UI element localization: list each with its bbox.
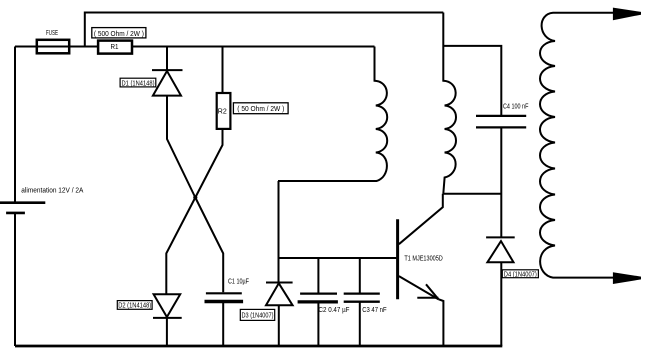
- svg-text:C2 0.47 µF: C2 0.47 µF: [319, 307, 350, 314]
- transistor T1 MJE13005D: [398, 194, 443, 299]
- capacitor C4: [476, 116, 526, 128]
- wire D1 branch: [166, 47, 168, 71]
- wire branch top right: [443, 46, 501, 116]
- wire base net horizontal: [279, 257, 397, 259]
- diode D4 1N4007: [486, 237, 515, 262]
- label box D3: [240, 309, 274, 320]
- wire main horizontal: [15, 46, 375, 48]
- wire junction to C1: [195, 198, 223, 293]
- wire top rail: [85, 13, 444, 47]
- resistor R2: [217, 93, 231, 129]
- svg-text:D2 (1N4148): D2 (1N4148): [118, 303, 151, 310]
- wire emitter to ground: [438, 299, 443, 346]
- wire left vertical to battery: [14, 47, 16, 203]
- capacitor C3: [344, 294, 380, 302]
- wire battery to bottom rail: [14, 213, 16, 346]
- wire C2 stub top: [317, 258, 319, 293]
- wire L2 bottom to collector node: [443, 193, 502, 195]
- svg-text:D4 (1N4007): D4 (1N4007): [504, 272, 537, 279]
- label box D2: [117, 301, 152, 310]
- svg-text:D3 (1N4007): D3 (1N4007): [242, 313, 274, 320]
- capacitor C1: [205, 293, 244, 301]
- wire D1 to junction: [167, 96, 195, 198]
- wire R2 branch: [222, 47, 224, 94]
- wire L1 bottom down to base net: [278, 181, 280, 283]
- battery BT1 alimentation: [0, 203, 45, 213]
- wire C2 to ground: [317, 302, 319, 346]
- diode D1 1N4148: [152, 70, 183, 96]
- wire C3 to ground: [359, 302, 361, 346]
- inductor L3 secondary winding: [540, 13, 613, 278]
- arrow output top: [613, 8, 641, 21]
- svg-text:C1 10µF: C1 10µF: [228, 279, 249, 286]
- inductor L1 primary winding: [278, 47, 387, 182]
- diode D3 1N4007: [266, 283, 293, 306]
- wire junction to D2: [166, 198, 195, 295]
- wire D2 to ground: [166, 318, 168, 346]
- label box D1: [120, 78, 156, 87]
- inductor L2 feedback winding: [443, 13, 456, 194]
- resistor R1: [98, 41, 132, 54]
- diode D2 1N4148: [153, 294, 182, 318]
- svg-text:alimentation 12V / 2A: alimentation 12V / 2A: [21, 187, 83, 194]
- svg-text:FUSE: FUSE: [46, 30, 58, 37]
- fuse FUSE: [37, 40, 69, 54]
- svg-text:T1 MJE13005D: T1 MJE13005D: [404, 255, 442, 262]
- label box R1 value: [92, 28, 146, 39]
- wire bottom ground rail: [15, 345, 502, 348]
- wire D3 to ground: [278, 305, 280, 346]
- svg-text:R1: R1: [111, 44, 119, 51]
- wire C3 stub top: [359, 258, 361, 293]
- label box D4: [502, 270, 538, 279]
- wire C4 down to D4: [500, 127, 502, 237]
- svg-text:R2: R2: [218, 109, 227, 116]
- wire R2 to junction: [195, 129, 222, 198]
- svg-text:C4 100 nF: C4 100 nF: [503, 104, 528, 111]
- junction node: [193, 195, 197, 199]
- wire C1 to ground: [222, 302, 224, 347]
- svg-text:( 500 Ohm / 2W ): ( 500 Ohm / 2W ): [94, 31, 144, 38]
- capacitor C2: [298, 294, 338, 302]
- svg-text:D1 (1N4148): D1 (1N4148): [122, 80, 155, 87]
- svg-text:( 50 Ohm / 2W ): ( 50 Ohm / 2W ): [237, 106, 284, 113]
- arrow output bottom: [613, 272, 641, 284]
- label box R2 value: [233, 103, 288, 114]
- svg-text:C3 47 nF: C3 47 nF: [362, 307, 386, 314]
- wire D4 to ground: [500, 262, 502, 346]
